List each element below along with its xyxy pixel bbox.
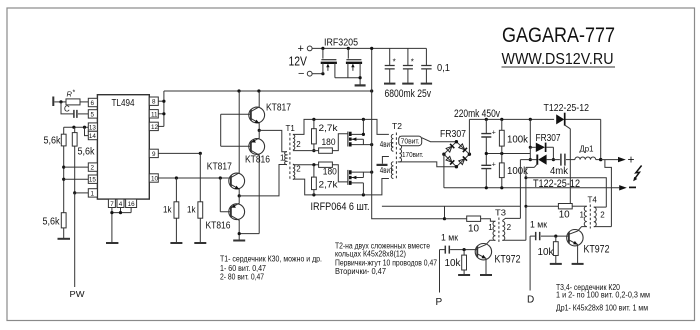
T2 winding 1a (primary top 4вит) (391, 134, 393, 151)
svg-text:10: 10 (151, 176, 159, 183)
svg-text:10k: 10k (445, 258, 462, 269)
transistor VT2 IRFP064 (bottom) (348, 170, 372, 195)
wire pin10 row (158, 177, 231, 179)
wire +12V rail (y=91) (164, 90, 372, 92)
svg-text:1 мк: 1 мк (530, 220, 547, 230)
svg-text:KT817: KT817 (207, 162, 232, 173)
resistor R 5,6k (second) (72, 127, 95, 193)
svg-text:12V: 12V (289, 54, 308, 68)
svg-text:IRFP064 6 шт.: IRFP064 6 шт. (311, 201, 370, 213)
wire minus output arrow (619, 185, 636, 190)
svg-text:100k: 100k (507, 134, 529, 145)
wire pin9 to 1k (199, 153, 201, 201)
node HV rail/100k (500, 118, 503, 121)
capacitor 220mk (bottom) (481, 154, 496, 188)
ground (10k D) (550, 263, 562, 265)
capacitor 6800mk (first) (384, 48, 396, 83)
pin 14 (88, 131, 97, 140)
svg-text:Вторички- 0,47: Вторички- 0,47 (335, 266, 386, 276)
wire collectors ground bus (239, 234, 259, 240)
svg-text:8: 8 (152, 99, 156, 106)
wire pin15 row (64, 178, 89, 180)
wire pin9 row (158, 152, 200, 154)
node bridge top (455, 140, 458, 143)
resistor 180 (top) (319, 137, 336, 153)
transformer T4 core (589, 205, 591, 229)
node pin2 row (62, 166, 65, 169)
power bar (T2 center tap) (377, 164, 388, 166)
wire +12V top rail (312, 47, 426, 49)
svg-text:4: 4 (119, 201, 123, 208)
T1 winding 2a (top secondary) (293, 135, 295, 150)
node gate row2/2.7k (312, 163, 315, 166)
node rail/KT817-1 collector (257, 89, 260, 92)
wire C to pin5 (78, 113, 88, 115)
ground (KT972 P emitter) (480, 274, 492, 276)
node 100k mid (500, 152, 503, 155)
svg-text:180: 180 (323, 167, 337, 177)
node output plus (599, 158, 602, 161)
transistor Q3 KT817 (pair2 NPN) (207, 91, 245, 196)
svg-text:5,6k: 5,6k (44, 136, 62, 147)
wire T4 w1 bottom to KT972 collector (578, 227, 587, 231)
node collector bus (238, 232, 241, 235)
wire bridge plus up to HV rail (468, 119, 470, 154)
wire T2 secondary top to bridge (422, 138, 457, 142)
resistor 180 (bottom) (319, 162, 337, 177)
op-amp/controller U1 TL494 (97, 95, 149, 199)
svg-text:13: 13 (89, 125, 97, 132)
wire HV rail branch down to diodes (529, 119, 531, 147)
bridge diode TL (446, 144, 454, 152)
wire base row D (541, 235, 569, 237)
T3 winding 2 (502, 221, 504, 240)
svg-text:2: 2 (507, 223, 512, 232)
node pin9 (199, 152, 202, 155)
wire HV plus rail (469, 118, 554, 120)
svg-text:T4: T4 (588, 195, 598, 204)
wire MOSFET drain1-source2 link (335, 77, 360, 79)
svg-text:T122-25-12: T122-25-12 (544, 102, 590, 114)
wire D terminal (529, 236, 531, 290)
T1 winding 2b (bottom secondary) (293, 164, 295, 179)
pin 9 (149, 149, 158, 158)
wire T3 w2 top up to thyristor cathode row (502, 160, 520, 221)
wire PW (74, 193, 76, 287)
T2 winding 1b (primary bottom 4вит) (391, 162, 393, 179)
svg-text:KT972: KT972 (584, 243, 610, 255)
wire T2 secondary bottom to bridge (398, 162, 457, 167)
node diode row1 left (529, 146, 532, 149)
node bridge bottom (455, 165, 458, 168)
node base/10k D (554, 235, 557, 238)
wire P terminal (439, 250, 441, 293)
pin 16 (126, 199, 137, 208)
wire minus terminal to MOSFET (312, 73, 323, 75)
capacitor 4mk (550, 154, 575, 177)
capacitor 220mk (top) (481, 119, 496, 153)
node pin13/pin14 (83, 126, 86, 129)
svg-text:2: 2 (296, 165, 301, 174)
svg-text:T2: T2 (392, 121, 402, 131)
pin 15 (88, 175, 97, 184)
transistor IRF3205 (second, protection) (346, 48, 362, 85)
wire base bus pair2 (220, 178, 231, 212)
pin 6 (88, 98, 97, 107)
node pin4 bus (119, 211, 122, 214)
resistor R 1k (second) (187, 202, 203, 243)
svg-text:4вит: 4вит (380, 166, 393, 175)
svg-text:180: 180 (322, 137, 336, 147)
node minus rail/100k (500, 186, 503, 189)
ground (pin 7) (106, 242, 118, 244)
svg-text:7: 7 (110, 201, 114, 208)
node source2/main vertical (370, 171, 373, 174)
node rail/main vertical (370, 89, 373, 92)
svg-text:*: * (393, 57, 396, 66)
ground (10k P) (458, 274, 470, 276)
svg-text:D: D (527, 295, 534, 306)
svg-text:2: 2 (91, 165, 95, 172)
svg-text:220mk 450v: 220mk 450v (454, 108, 500, 120)
wire minus output rail (444, 187, 619, 189)
svg-text:+: + (628, 153, 635, 167)
capacitor C (64, 105, 77, 118)
pin 7 (108, 199, 115, 208)
node HV rail/cap (485, 118, 488, 121)
node pin13/5,6k (72, 126, 75, 129)
label 70вит callout (399, 136, 422, 146)
resistor R 1k (first) (163, 178, 179, 243)
wire thyristor top cathode down to output (600, 119, 602, 158)
node minus rail/cap (485, 186, 488, 189)
svg-text:5,6k: 5,6k (78, 147, 96, 158)
wire pin2 row (64, 166, 89, 168)
pin 8 (149, 97, 158, 106)
resistor 10k (P) (445, 250, 467, 275)
svg-text:IRF3205: IRF3205 (324, 38, 358, 49)
svg-text:1 мк: 1 мк (441, 232, 458, 242)
wire gate row 1 (293, 150, 319, 152)
svg-text:KT816: KT816 (245, 154, 270, 165)
svg-text:KT972: KT972 (495, 254, 521, 266)
node gate row1/2.7k (312, 149, 315, 152)
wire main +12V vertical feed (372, 48, 445, 218)
wire 10 to T4 w1 top (572, 205, 587, 207)
T3 winding 1 (493, 221, 495, 240)
wire output plus with arrow (601, 153, 635, 167)
capacitor 6800mk (second) (402, 48, 414, 83)
node bottom rail/2.7k (312, 193, 315, 196)
wire trigger feed line (y=206) (382, 205, 521, 207)
wire output jog to T4 w2 bottom (605, 160, 612, 227)
wire T4 w2 top (594, 206, 607, 208)
capacitor 0,1 (421, 48, 451, 83)
resistor R* (66, 90, 80, 105)
thyristor VS1 T122-25-12 (top) (556, 113, 601, 207)
transistor KT972 (P side) (475, 244, 520, 275)
svg-text:6: 6 (91, 100, 95, 107)
svg-text:0,1: 0,1 (437, 63, 450, 74)
node bridge right (468, 153, 471, 156)
T1 winding 1 (primary) (285, 152, 287, 165)
wire 180 to gate2 (332, 165, 347, 182)
svg-text:T1: T1 (286, 124, 296, 133)
wire pair1 output to T1 winding1 top (259, 130, 287, 151)
transistor VT1 IRFP064 (top) (348, 119, 372, 146)
svg-text:14: 14 (89, 133, 97, 140)
node T4 row start (524, 205, 527, 208)
svg-text:1 и 2- по 100 вит. 0,2-0,3 мм: 1 и 2- по 100 вит. 0,2-0,3 мм (556, 290, 650, 300)
node pin7 bus (110, 211, 113, 214)
node pin8 (162, 100, 165, 103)
wire pin1 row (75, 192, 89, 194)
node pair1 emitters (258, 129, 261, 132)
svg-text:15: 15 (89, 177, 97, 184)
terminal circle minus (307, 71, 312, 76)
svg-text:6800mk 25v: 6800mk 25v (385, 88, 432, 100)
wire bridge minus down to minus rail (443, 154, 445, 188)
svg-text:1k: 1k (163, 205, 172, 216)
node source1/main vertical (370, 143, 373, 146)
wire pin14 jog (85, 127, 89, 135)
pin 5 (88, 110, 97, 119)
svg-text:P: P (436, 297, 443, 308)
node pin11 (162, 112, 165, 115)
node pair2 emitters (238, 194, 241, 197)
svg-text:2: 2 (296, 140, 301, 149)
resistor 100k (top) (499, 119, 529, 153)
svg-text:+: + (298, 43, 304, 55)
node drain1 junction (362, 133, 365, 136)
resistor R 5,6k (first) (44, 127, 67, 213)
pin 13 (88, 123, 97, 132)
node gate1 IRF3205 (321, 47, 324, 50)
node main vertical top (370, 47, 373, 50)
wire pin11 stub (158, 113, 164, 115)
wire pin13 row (64, 126, 89, 128)
bridge diode BR (459, 156, 467, 164)
svg-text:−: − (298, 68, 304, 80)
bridge diode BL (446, 156, 454, 164)
resistor 2,7k (bottom) (312, 165, 339, 195)
wire base bus pair1 (221, 114, 251, 146)
node pin1 row (73, 191, 76, 194)
lightning arc symbol (633, 166, 641, 182)
svg-text:T122-25-12: T122-25-12 (533, 178, 580, 190)
node pin15 row (62, 178, 65, 181)
svg-text:70вит.: 70вит. (401, 137, 420, 146)
svg-text:Т1- сердечник К30, можно и др.: Т1- сердечник К30, можно и др. (220, 254, 322, 264)
wire 10 to T3 w1 top (481, 219, 496, 222)
wire R* to pin6 (80, 101, 88, 103)
ground (KT972 D emitter) (572, 263, 584, 265)
bridge diode TR (459, 144, 467, 152)
svg-text:*: * (411, 57, 414, 66)
wires pins 7,4,16 to ground bus (112, 208, 131, 243)
svg-text:16: 16 (128, 201, 136, 208)
wire row 218 left part (445, 218, 467, 220)
wire terminal to R* (54, 101, 66, 103)
wire MOSFET bottom rail (y=194.9) with T2 w1 bottom (293, 179, 389, 195)
wire pins 8/11/12 tie vertical (163, 91, 165, 126)
wire caps midpoint row (486, 153, 530, 155)
inductor Др1 (575, 145, 601, 160)
wire pin12 stub (158, 125, 164, 127)
svg-text:KT817: KT817 (266, 103, 291, 114)
svg-text:*: * (73, 90, 76, 97)
node cap mid (485, 152, 488, 155)
svg-text:10: 10 (468, 223, 479, 234)
wire T3 w2 bottom to gate vertical (502, 239, 526, 241)
transistor Q1 KT817 (pair1 NPN) (249, 91, 292, 130)
transistor Q2 KT816 (pair1 PNP) (245, 130, 270, 233)
wire T4 drive row (526, 205, 559, 207)
pin 10 (149, 174, 158, 183)
svg-text:Др1- К45х28х8 100 вит. 1 мм: Др1- К45х28х8 100 вит. 1 мм (556, 303, 648, 313)
wire diode rows tie left (529, 147, 531, 159)
resistor 10k (D) (538, 236, 559, 263)
wire stub to row218 (444, 206, 446, 219)
svg-text:+: + (492, 130, 496, 137)
svg-text:12: 12 (151, 124, 159, 131)
pin 12 (149, 122, 158, 131)
pin 11 (149, 110, 158, 119)
svg-text:170вит.: 170вит. (402, 150, 424, 159)
thyristor VS2 T122-25-12 (bottom) (520, 155, 560, 241)
transistor Q4 KT816 (pair2 PNP) (206, 196, 245, 234)
svg-text:GAGARA-777: GAGARA-777 (502, 24, 615, 47)
terminal circle plus (307, 46, 312, 51)
svg-text:TL494: TL494 (112, 97, 135, 109)
node rail/drain1 (362, 118, 365, 121)
node bottom rail/drain2 (362, 193, 365, 196)
node base/10k P (463, 248, 466, 251)
transformer T2 core (395, 133, 397, 181)
svg-text:9: 9 (152, 151, 156, 158)
node row2 right (552, 158, 555, 161)
T4 winding 2 (594, 207, 596, 227)
node minus/source (321, 72, 324, 75)
node rail/2.7k top (312, 118, 315, 121)
node rail/KT817-2 collector (237, 89, 240, 92)
svg-text:FR307: FR307 (440, 129, 466, 140)
resistor 2,7k (top) (312, 119, 339, 150)
node row218 (443, 217, 446, 220)
svg-text:10: 10 (559, 210, 570, 221)
pin 2 (88, 163, 97, 172)
wire T3 w1 bottom to KT972 collector (486, 240, 495, 244)
svg-text:PW: PW (70, 289, 85, 299)
node gate loop junction 1 (524, 176, 527, 179)
node junction R*/C (59, 100, 62, 103)
ground (1k first) (170, 242, 182, 244)
svg-text:+: + (492, 161, 496, 168)
node pin10/base bus (219, 176, 222, 179)
bridge rectifier FR307 diamond (444, 142, 470, 167)
svg-text:1: 1 (91, 190, 95, 197)
wire gate row 2 (293, 164, 319, 166)
svg-text:10k: 10k (538, 247, 555, 258)
svg-text:5,6k: 5,6k (43, 217, 61, 228)
svg-text:2,7k: 2,7k (319, 180, 339, 190)
power bar (IRF3205 drain2) (355, 84, 366, 86)
wire node down to C row (61, 102, 73, 114)
svg-text:2: 2 (600, 211, 605, 220)
wire pair2 output to T1 winding1 bottom (239, 165, 287, 196)
svg-text:WWW.DS12V.RU: WWW.DS12V.RU (502, 51, 614, 68)
svg-text:1k: 1k (187, 205, 196, 216)
wire pin8 stub (158, 100, 164, 102)
svg-text:C: C (64, 105, 70, 114)
wire base row P (450, 249, 477, 251)
ground (driver pairs) (233, 240, 245, 242)
wire MOSFET supply rail (y=119.4) with T1-2a top and T2 w1 top (293, 119, 389, 134)
wire gate loop to T4 (526, 178, 606, 207)
node pin10/1k (175, 176, 178, 179)
svg-text:FR307: FR307 (536, 133, 561, 144)
capacitor 1мк (P) (440, 232, 459, 253)
T2 winding 2 (secondary) (399, 136, 401, 162)
svg-text:4вит: 4вит (380, 140, 393, 149)
website label (502, 51, 616, 68)
wire 180 to gate1 (332, 134, 347, 151)
transformer T1 core (289, 133, 291, 181)
node row2 left (529, 158, 532, 161)
svg-text:KT816: KT816 (206, 220, 231, 231)
svg-text:1: 1 (280, 153, 285, 162)
transistor KT972 (D side) (567, 230, 610, 264)
resistor 10 (D side) (558, 204, 572, 221)
input terminal stub (left of R*) (52, 97, 54, 107)
diode FR307 (output, top) (530, 143, 553, 160)
resistor R 5,6k (bottom) (43, 213, 67, 239)
svg-text:1: 1 (580, 211, 585, 220)
resistor 10 (P side) (467, 216, 481, 234)
node bridge left (442, 153, 445, 156)
transformer T3 core (498, 218, 500, 244)
svg-text:2,7k: 2,7k (319, 123, 339, 133)
pin 4 (117, 199, 124, 208)
wire T4 w2 bottom (594, 226, 612, 228)
wire T2 center tap (382, 157, 389, 164)
node gate2 IRF3205 (347, 47, 350, 50)
resistor 100k (bottom) (499, 154, 529, 188)
svg-text:Т3: Т3 (495, 209, 507, 218)
svg-text:11: 11 (151, 111, 158, 118)
ground (5,6k bottom) (58, 238, 71, 240)
T4 winding 1 (584, 206, 587, 226)
node link/drain2 (359, 76, 362, 79)
pin 1 (88, 189, 97, 198)
node HV rail/diode branch (529, 118, 532, 121)
svg-text:1: 1 (488, 223, 493, 232)
capacitor 1мк (D) (530, 220, 547, 241)
svg-text:4mk: 4mk (550, 166, 569, 177)
svg-text:2- 80 вит. 0,47: 2- 80 вит. 0,47 (220, 272, 264, 282)
transistor IRF3205 (first, protection) (321, 48, 337, 77)
ground (1k second) (194, 242, 206, 244)
svg-text:Др1: Др1 (580, 145, 595, 154)
svg-text:5: 5 (91, 111, 95, 118)
